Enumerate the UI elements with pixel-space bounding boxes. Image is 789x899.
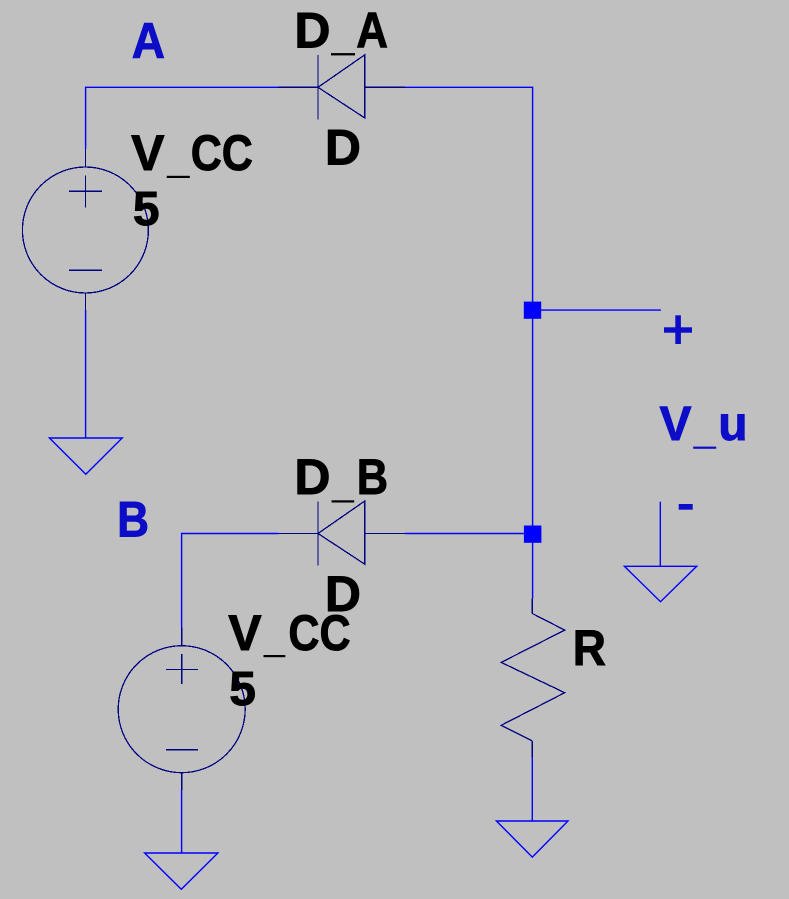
svg-text:u: u [718, 398, 747, 451]
svg-text:A: A [132, 14, 165, 69]
svg-text:V: V [131, 125, 165, 181]
svg-text:5: 5 [229, 663, 256, 716]
svg-text:R: R [573, 621, 606, 676]
wire output node to V_u plus terminal [541, 309, 661, 311]
svg-text:5: 5 [133, 183, 160, 236]
svg-text:B: B [357, 449, 388, 505]
node junction 1 (output node) [524, 302, 541, 319]
plus sign of V_u port [664, 327, 692, 332]
wire net B: corner from input B to diode D_B [182, 534, 279, 628]
wire below source V_CC (top) to ground [85, 310, 87, 438]
wire net A: corner from input A to diode D_A [86, 87, 278, 149]
ground of V_u minus terminal [624, 566, 696, 601]
wire stem of V_u ground [659, 502, 661, 567]
minus sign of V_u port [679, 504, 693, 510]
svg-text:D: D [325, 120, 361, 176]
svg-text:CC: CC [191, 125, 253, 181]
svg-text:A: A [356, 2, 388, 58]
svg-text:CC: CC [288, 605, 350, 661]
wire below resistor R to ground [531, 757, 533, 821]
label D_B [294, 449, 388, 505]
net label V_u [660, 398, 748, 451]
voltage source V_CC top (circle with plus minus) [22, 149, 148, 310]
svg-text:D: D [294, 3, 330, 59]
node junction 2 [524, 526, 542, 543]
svg-text:V: V [660, 398, 692, 451]
wire below source V_CC (bottom) to ground [181, 790, 183, 853]
label V_CC bottom [228, 605, 350, 661]
resistor R (zigzag) [501, 598, 565, 757]
ground below bottom V_CC [145, 853, 218, 889]
wire from diode D_B to node 2 [405, 533, 524, 535]
diode D_A (anode right, cathode bar left) [278, 55, 405, 120]
svg-text:B: B [117, 491, 149, 547]
svg-text:V: V [228, 605, 262, 661]
label D_A [294, 2, 388, 59]
ground below resistor R [496, 821, 568, 857]
voltage source V_CC bottom (circle with plus minus) [118, 628, 245, 791]
wire from diode D_A to top-right corner and main vertical net [405, 87, 533, 598]
label V_CC top [131, 125, 253, 181]
diode D_B (anode right, cathode bar left) [279, 501, 406, 566]
svg-text:D: D [294, 449, 330, 505]
ground below top V_CC [49, 438, 122, 474]
